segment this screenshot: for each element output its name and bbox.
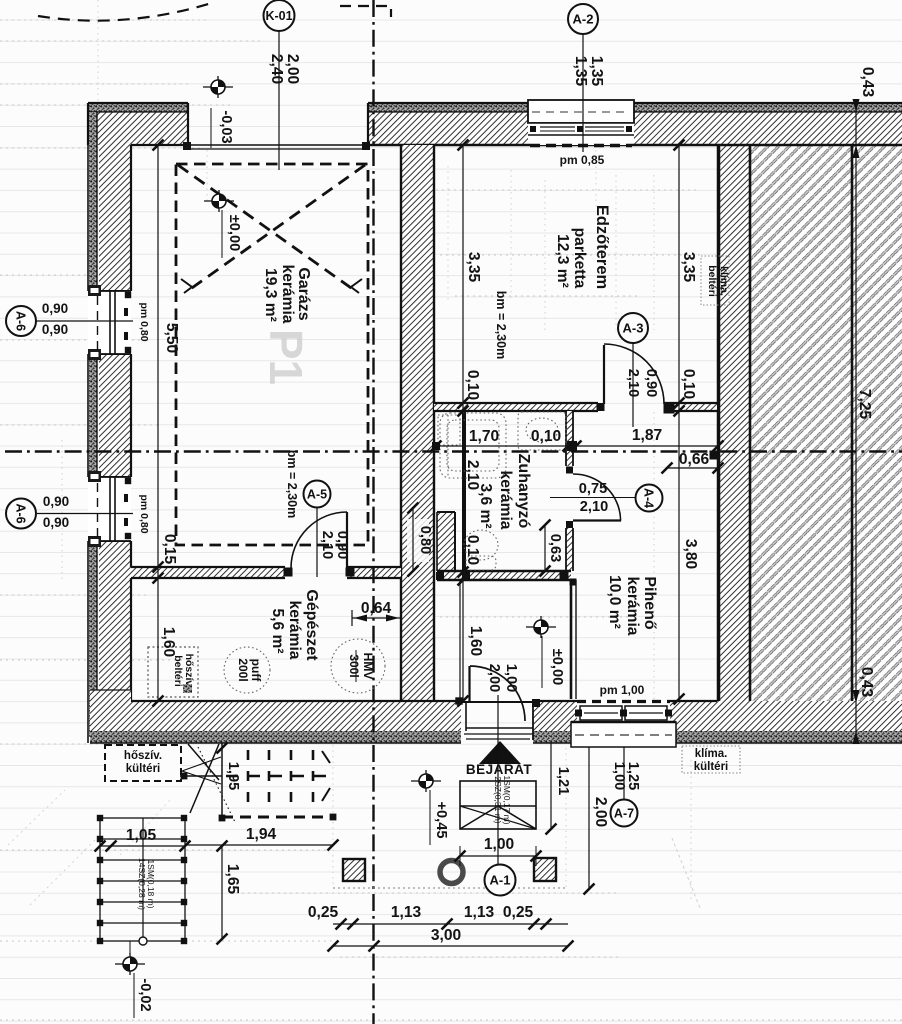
- svg-text:1,13: 1,13: [391, 904, 422, 921]
- svg-text:0,90: 0,90: [42, 322, 68, 337]
- svg-text:1,95: 1,95: [225, 762, 241, 790]
- svg-text:A-1: A-1: [490, 873, 511, 888]
- svg-text:±0,00: ±0,00: [226, 215, 242, 251]
- svg-text:5,6 m²: 5,6 m²: [269, 608, 286, 653]
- svg-text:1,35: 1,35: [572, 56, 589, 87]
- svg-text:pm 0,85: pm 0,85: [560, 153, 605, 167]
- svg-text:A-3: A-3: [623, 321, 644, 336]
- dim: 0,80 inside partition: [407, 519, 429, 562]
- svg-text:beltéri: beltéri: [706, 265, 718, 297]
- svg-text:3,6 m²: 3,6 m²: [477, 483, 494, 528]
- svg-text:Pihenő: Pihenő: [641, 576, 658, 630]
- svg-text:kerámia: kerámia: [497, 471, 514, 530]
- wall: garage-gym partition: [401, 145, 434, 703]
- svg-text:0,80: 0,80: [417, 526, 433, 554]
- fixture: puff 200l: [224, 647, 270, 693]
- svg-text:2,00: 2,00: [284, 54, 301, 85]
- dim: 0,63 shower: [544, 525, 546, 571]
- svg-text:puff: puff: [249, 659, 263, 683]
- svg-text:0,75: 0,75: [579, 481, 607, 497]
- door A-3 (gym): [597, 344, 674, 413]
- svg-text:HMV: HMV: [361, 653, 375, 680]
- wall: shower east: [566, 411, 573, 466]
- svg-text:±0,00: ±0,00: [549, 649, 565, 685]
- dim: vertical line x856 (0,43 / 7,25 / 0,43): [855, 100, 857, 740]
- dim: 0,64 gepeszet: [352, 617, 401, 619]
- svg-text:K-01: K-01: [265, 9, 292, 23]
- svg-text:0,25: 0,25: [308, 904, 339, 921]
- svg-text:pm 0,80: pm 0,80: [138, 302, 150, 341]
- porch: entry steps: [460, 781, 536, 829]
- svg-text:0,10: 0,10: [680, 369, 697, 400]
- fixture: duct dots in closet: [438, 415, 460, 445]
- svg-text:A-2: A-2: [573, 12, 594, 27]
- svg-text:1,70: 1,70: [469, 428, 500, 445]
- svg-text:0,90: 0,90: [43, 515, 69, 530]
- svg-text:1,87: 1,87: [632, 427, 662, 444]
- svg-text:hőszív.: hőszív.: [124, 750, 162, 762]
- svg-text:1,35: 1,35: [588, 56, 605, 87]
- wall: partition stub near shower: [437, 512, 455, 571]
- svg-text:0,10: 0,10: [464, 370, 481, 401]
- svg-text:Gépészet: Gépészet: [303, 589, 320, 661]
- svg-text:10,0 m²: 10,0 m²: [606, 575, 623, 629]
- svg-text:A-6: A-6: [14, 503, 28, 523]
- svg-text:pm 0,80: pm 0,80: [138, 494, 150, 533]
- svg-text:1,60: 1,60: [467, 626, 484, 657]
- svg-text:300l: 300l: [347, 654, 361, 677]
- svg-text:0,10: 0,10: [464, 535, 481, 566]
- window: pihenö south, pm 1,00: [571, 701, 676, 747]
- window: top (gym), pm 0,85: [528, 100, 634, 146]
- opening: garage gate: [183, 142, 370, 150]
- svg-text:14SZ(0,28 m): 14SZ(0,28 m): [137, 858, 147, 910]
- svg-text:5,50: 5,50: [163, 323, 180, 354]
- section circles & leaders: [278, 31, 280, 170]
- centerline horizontal: [5, 450, 902, 452]
- svg-text:2,00: 2,00: [486, 664, 502, 692]
- svg-text:2,40: 2,40: [268, 54, 285, 85]
- svg-text:3,35: 3,35: [680, 252, 697, 283]
- svg-text:0,43: 0,43: [859, 67, 876, 98]
- dim: -0,03 top: [210, 108, 212, 148]
- svg-text:A-7: A-7: [614, 807, 634, 821]
- svg-text:kerámia: kerámia: [279, 265, 296, 324]
- svg-text:beltéri: beltéri: [172, 655, 184, 687]
- wall: left exterior: [99, 145, 131, 291]
- svg-text:klíma.: klíma.: [695, 748, 728, 760]
- wall junction blobs: [436, 572, 444, 580]
- svg-text:kerámia: kerámia: [286, 601, 303, 660]
- door A-4 (shower): [573, 474, 621, 521]
- unit: höszív beltéri: [148, 647, 198, 697]
- svg-text:7,25: 7,25: [856, 389, 873, 420]
- wall: top exterior: [368, 104, 528, 145]
- svg-text:1,60: 1,60: [160, 627, 177, 658]
- svg-text:Garázs: Garázs: [295, 267, 312, 320]
- svg-text:2,10: 2,10: [580, 499, 608, 515]
- dim: porch 1,21: [550, 743, 552, 829]
- wall: gym south wall: [434, 403, 598, 411]
- svg-text:1,21: 1,21: [555, 767, 571, 795]
- svg-text:3,80: 3,80: [682, 539, 699, 570]
- svg-text:0,10: 0,10: [531, 428, 562, 445]
- wall: shower west line: [462, 410, 466, 575]
- svg-text:19,3 m²: 19,3 m²: [262, 268, 279, 322]
- svg-text:BEJÁRAT: BEJÁRAT: [466, 762, 533, 777]
- svg-text:3,00: 3,00: [431, 927, 462, 944]
- svg-text:kerámia: kerámia: [624, 577, 641, 636]
- dashed terrace treads: [222, 750, 333, 817]
- svg-text:1,94: 1,94: [246, 826, 277, 843]
- staircase main: [100, 818, 185, 941]
- dim: vertical chain x463 (3,35 / 0,10 / 2,10 / 0,10 / 1,60): [462, 145, 464, 701]
- dashed roof corner top: [340, 6, 391, 17]
- adjoining structure (ladder hatch): [717, 145, 902, 731]
- wall: shower south: [437, 571, 571, 580]
- dim: 1,94: [185, 844, 333, 846]
- svg-text:1,13: 1,13: [464, 904, 495, 921]
- svg-text:1,00: 1,00: [484, 836, 515, 853]
- dashed arc top-left: [38, 2, 215, 21]
- svg-text:A-4: A-4: [642, 488, 656, 508]
- porch columns: [343, 858, 556, 881]
- fixture: HMV 300l: [331, 639, 385, 693]
- upper stair flight: [180, 743, 235, 822]
- dim: vertical chain left x158 (5,50 / 0,15 / 1,60): [157, 145, 159, 701]
- svg-text:12,3 m²: 12,3 m²: [554, 234, 571, 288]
- svg-text:0,90: 0,90: [43, 494, 69, 509]
- svg-text:0,15: 0,15: [161, 534, 178, 565]
- centerline vertical: [372, 0, 374, 1024]
- dim: 1,65 vertical: [221, 846, 223, 939]
- svg-text:1,05: 1,05: [126, 827, 157, 844]
- svg-text:0,43: 0,43: [858, 667, 875, 698]
- wall: top-left stub: [88, 103, 188, 145]
- dashed garage ceiling outline: [176, 164, 368, 545]
- svg-text:Zuhanyzó: Zuhanyzó: [515, 454, 532, 529]
- dim: 1,60 hallway: [459, 580, 461, 701]
- door A-5 (gepeszet/garage): [284, 512, 354, 576]
- dim: bottom chain 0,25/1,13/1,13/0,25: [333, 923, 568, 925]
- unit: klima belteri: [701, 256, 729, 305]
- bejarat arrow: [479, 741, 521, 764]
- porch post round: [440, 861, 463, 884]
- wall: bottom exterior: [90, 690, 131, 731]
- svg-text:-0,03: -0,03: [218, 110, 234, 143]
- dim: 2,00 right porch: [588, 747, 590, 889]
- svg-text:Edzőterem: Edzőterem: [593, 205, 611, 289]
- window: left upper, pm 0,80: [88, 285, 131, 360]
- fixture: shower tray: [440, 413, 506, 478]
- garage X cross: [178, 165, 365, 290]
- svg-text:3,35: 3,35: [465, 252, 482, 283]
- svg-text:bm = 2,30m: bm = 2,30m: [285, 450, 299, 518]
- svg-text:-0,02: -0,02: [137, 978, 153, 1011]
- svg-text:200l: 200l: [236, 658, 250, 681]
- svg-text:2,00: 2,00: [592, 797, 609, 828]
- svg-text:0,90: 0,90: [334, 531, 350, 559]
- dim: 0,66: [667, 467, 718, 469]
- svg-text:1,00: 1,00: [503, 664, 519, 692]
- dim: stairs 1,05: [100, 845, 185, 847]
- fixture: washbasin: [518, 412, 566, 450]
- window: left lower, pm 0,80: [88, 471, 131, 547]
- stair up line: [142, 818, 144, 941]
- svg-text:pm 1,00: pm 1,00: [600, 683, 645, 697]
- svg-text:klíma.: klíma.: [718, 266, 730, 296]
- svg-text:+0,45: +0,45: [433, 802, 449, 839]
- wall: hallway-pihenö: [570, 580, 573, 699]
- svg-text:0,90: 0,90: [643, 369, 659, 397]
- dim: 0,95 upper stair: [217, 743, 228, 754]
- svg-text:0,66: 0,66: [679, 451, 710, 468]
- fixture: WC: [464, 530, 498, 560]
- unit: klima kulteri: [682, 746, 740, 773]
- svg-text:1,65: 1,65: [224, 864, 241, 895]
- level markers: [203, 86, 233, 88]
- svg-text:2,10: 2,10: [319, 531, 335, 559]
- wall: garage-gepeszet: [131, 567, 285, 578]
- svg-text:P1: P1: [260, 329, 312, 385]
- svg-text:parketta: parketta: [571, 228, 588, 289]
- svg-text:kültéri: kültéri: [694, 761, 729, 773]
- svg-text:kültéri: kültéri: [126, 763, 161, 775]
- door: entrance: [456, 666, 540, 740]
- svg-text:0,25: 0,25: [503, 904, 534, 921]
- dim: horizontal chain y447 (1,70 / 0,10 / 1,87): [436, 445, 718, 447]
- svg-text:0,64: 0,64: [361, 600, 392, 617]
- svg-text:A-5: A-5: [307, 488, 327, 502]
- dim: vertical chain x679 (3,35 / 0,10 / 3,80): [678, 145, 680, 699]
- svg-text:0,63: 0,63: [547, 534, 563, 562]
- svg-text:bm = 2,30m: bm = 2,30m: [494, 291, 508, 359]
- unit: höszív kültéri: [105, 745, 181, 781]
- dim: bottom 3,00: [333, 945, 568, 947]
- canopy dotted outline: [333, 887, 566, 889]
- dim: porch 1,00: [460, 855, 536, 857]
- svg-text:A-6: A-6: [14, 311, 28, 331]
- svg-text:0,90: 0,90: [42, 301, 68, 316]
